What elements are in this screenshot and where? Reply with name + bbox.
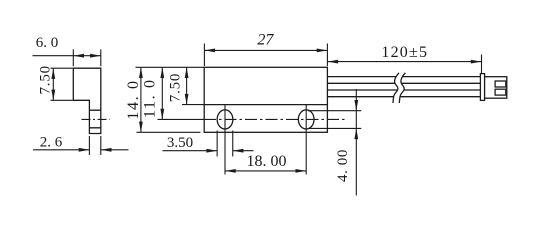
arrows dim 18.00 — [225, 169, 236, 173]
ext line at connector — [481, 55, 483, 74]
dim 4.00 tangent ext lines — [308, 111, 361, 129]
svg-text:120±5: 120±5 — [381, 44, 428, 61]
dim 2.6 extension lines — [89, 136, 100, 155]
svg-text:6. 0: 6. 0 — [36, 35, 59, 51]
hole tangent lines (side view) — [89, 110, 100, 128]
vertical centerline right hole — [305, 105, 307, 175]
hole left (oval) — [217, 110, 233, 129]
hole tangent verticals for dim 3.50 — [217, 131, 233, 157]
connector flange — [480, 74, 484, 101]
arrows dim 120±5 — [327, 60, 338, 64]
dim 7.50 (front) line — [186, 67, 188, 104]
left side view outline — [73, 68, 101, 133]
arrows dim 6.0 — [73, 54, 84, 58]
arrows dim 4.00 (outside pointing in) — [354, 100, 358, 111]
cable break squiggle left — [393, 73, 399, 103]
dim 27 line — [204, 49, 327, 51]
hole right (oval) — [298, 110, 314, 129]
ext bottom of front view — [137, 131, 201, 133]
svg-text:7.50: 7.50 — [38, 65, 54, 94]
arrows dim 14.0 — [139, 67, 143, 78]
svg-text:3.50: 3.50 — [167, 135, 193, 151]
centerline (side view) — [82, 118, 110, 120]
dim 7.50 (side) line — [52, 68, 54, 100]
arrows dim 7.50 front — [185, 67, 189, 78]
cable break white band — [393, 73, 405, 103]
dim 14.0 line — [140, 67, 142, 132]
svg-text:4. 00: 4. 00 — [335, 149, 351, 182]
svg-text:7.50: 7.50 — [167, 73, 183, 102]
connector body — [485, 77, 507, 99]
connector pin 1 — [495, 81, 506, 87]
ext top of front view — [136, 66, 205, 68]
dim 4.00 vertical line — [355, 89, 357, 196]
cable break squiggle right — [399, 73, 405, 103]
svg-text:18. 00: 18. 00 — [247, 153, 287, 170]
arrows dim 7.50 side — [51, 68, 55, 79]
horizontal centerline through holes — [158, 118, 205, 120]
arrows dim 27 — [204, 49, 215, 53]
dim 18.00 line — [225, 170, 306, 172]
ext for 7.50 front — [182, 104, 204, 106]
arrows dim 2.6 (outside pointing in) — [79, 148, 90, 152]
svg-text:14. 0: 14. 0 — [125, 79, 142, 120]
front view internal line — [204, 104, 327, 106]
dim 6.0 extension lines — [73, 49, 101, 66]
vertical centerline left hole — [224, 105, 226, 175]
connector pin 2 — [495, 89, 506, 95]
dim 7.50 (side) extension lines — [51, 68, 73, 100]
front view body — [204, 67, 327, 132]
svg-text:27: 27 — [257, 32, 274, 49]
arrows dim 11.0 — [160, 67, 164, 78]
cable lines — [327, 76, 480, 78]
dim 27 extension lines — [204, 44, 327, 67]
svg-text:2. 6: 2. 6 — [40, 135, 63, 151]
dim 6.0 line — [33, 55, 101, 57]
dim 11.0 line — [161, 67, 163, 119]
arrows dim 3.50 (outside pointing in) — [206, 149, 217, 153]
svg-text:11. 0: 11. 0 — [142, 78, 159, 118]
dim 120±5 line — [327, 61, 481, 63]
dim 3.50 line — [163, 150, 254, 152]
dim 2.6 line — [33, 149, 129, 151]
